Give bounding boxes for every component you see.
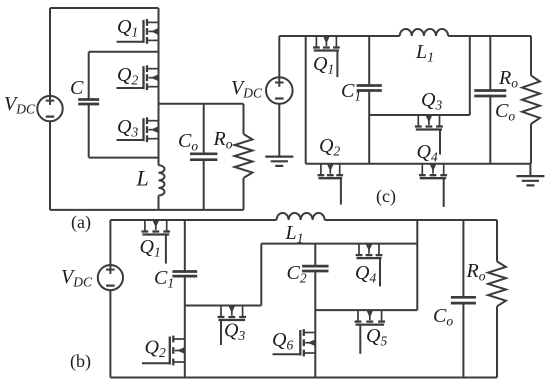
- wire: (a) top rail from Vdc to switch rail: [50, 7, 159, 9]
- label (b): [70, 351, 91, 372]
- label Q3 (a): [117, 116, 138, 140]
- wire: (c) C1 bottom lead: [368, 91, 370, 164]
- wire: (c) Ro bottom lead: [530, 124, 532, 164]
- wire: (b) bottom rail: [110, 377, 497, 379]
- wire: (b) Q4 branch: [261, 243, 417, 245]
- label Ro (b): [466, 260, 486, 284]
- wire: (c) top rail left segment: [279, 35, 399, 37]
- capacitor C1 (c): [357, 86, 382, 91]
- label Co (b): [433, 305, 453, 329]
- wire: gate lead Q1 (b): [165, 235, 167, 264]
- wire: (a) Co bottom lead: [203, 160, 205, 210]
- label C (a): [70, 77, 84, 99]
- inductor L1 (c): [400, 29, 448, 36]
- wire: (b) Co bottom lead: [462, 303, 464, 377]
- transistor Q2 (c): [318, 164, 344, 179]
- wire: (a) C bottom tap to Q3 source node: [89, 104, 159, 158]
- wire: (b) riser Q3 right to Q4 branch: [260, 244, 262, 306]
- transistor Q4 (c): [419, 164, 447, 179]
- wire: gate lead Q5 (b): [359, 325, 361, 354]
- label Ro (a): [213, 128, 233, 152]
- label Q3 (c): [421, 89, 442, 113]
- label (c): [376, 186, 396, 207]
- source VDC (c): [266, 77, 293, 104]
- capacitor C (a): [78, 100, 99, 105]
- label Co (a): [178, 130, 198, 154]
- wire: (a) Ro top lead: [243, 104, 245, 134]
- wire: gate lead Q4 (c): [443, 178, 445, 207]
- wire: (c) Q3 branch: [369, 114, 470, 116]
- capacitor C1 (b): [172, 272, 197, 277]
- svg-text:(c): (c): [376, 186, 396, 207]
- wire: gate lead Q1 (c): [336, 51, 338, 78]
- transistor Q1 (c): [313, 36, 340, 51]
- label VDC (a): [4, 93, 36, 117]
- wire: (a) rail below L: [158, 196, 160, 210]
- wire: (c) bottom rail: [306, 163, 531, 165]
- label L (a): [136, 166, 149, 191]
- wire: (c) Co bottom lead: [489, 96, 491, 164]
- transistor Q3 (a): [144, 117, 159, 142]
- wire: (a) Ro bottom lead: [243, 178, 245, 210]
- wire: (c) drop to Q2: [305, 36, 307, 164]
- wire: (b) top rail right segment: [325, 219, 497, 221]
- svg-text:(b): (b): [70, 351, 91, 372]
- transistor Q1 (b): [142, 220, 171, 235]
- label Q4 (b): [355, 262, 376, 286]
- transistor Q3 (c): [415, 115, 443, 130]
- svg-text:C: C: [70, 77, 84, 99]
- inductor L1 (b): [277, 213, 325, 220]
- wire: (b) Ro top lead: [496, 220, 498, 261]
- transistor Q3 (b): [218, 306, 246, 321]
- wire: gate lead Q2 (a): [117, 87, 144, 89]
- wire: gate lead Q4 (b): [379, 258, 381, 286]
- source VDC (b): [98, 265, 123, 290]
- source VDC (a): [37, 96, 62, 121]
- wire: (a) Co top lead: [203, 104, 205, 154]
- wire: (b) Vdc bottom lead: [109, 290, 111, 377]
- label Q2 (a): [117, 64, 138, 88]
- svg-text:L: L: [136, 166, 149, 191]
- wire: (b) C1 bottom rail to Q2 and bottom: [184, 276, 186, 377]
- capacitor Co (c): [474, 91, 506, 97]
- label Q1 (c): [313, 53, 334, 77]
- label Q6 (b): [272, 329, 293, 353]
- label Q1 (a): [117, 16, 138, 40]
- label Q4 (c): [417, 141, 438, 165]
- wire: (b) Vdc top riser: [109, 220, 111, 265]
- wire: (b) top rail left segment: [110, 219, 276, 221]
- wire: (c) top rail right segment: [448, 35, 531, 37]
- wire: (c) Co top lead: [489, 36, 491, 91]
- label VDC (b): [61, 266, 93, 290]
- wire: (b) C2 top lead: [314, 244, 316, 267]
- wire: (c) C1 top lead: [368, 36, 370, 86]
- label L1 (c): [415, 41, 434, 66]
- resistor Ro (c): [522, 75, 540, 124]
- wire: (b) Q5 branch: [315, 309, 417, 311]
- label Q5 (b): [366, 325, 387, 349]
- transistor Q2 (a): [144, 65, 159, 90]
- wire: gate lead Q3 (b): [220, 320, 222, 345]
- resistor Ro (b): [488, 261, 506, 306]
- wire: (c) Vdc bottom lead: [278, 104, 280, 157]
- ground (c) left: [265, 157, 293, 166]
- svg-text:(a): (a): [71, 212, 91, 233]
- label (a): [71, 212, 91, 233]
- wire: (b) C1 top lead: [184, 220, 186, 272]
- wire: gate lead Q2 (c): [340, 178, 342, 204]
- wire: (b) riser to top rail: [416, 220, 418, 310]
- wire: gate lead Q3 (a): [117, 139, 144, 141]
- ground (c) right: [516, 176, 544, 185]
- wire: gate lead Q2 (b): [142, 362, 170, 364]
- wire: (a) C top tap from Q1 source node: [89, 52, 159, 100]
- transistor Q6 (b): [300, 329, 315, 356]
- label L1 (b): [285, 222, 304, 247]
- wire: (a) main switch rail: [158, 8, 160, 165]
- capacitor Co (a): [190, 154, 217, 160]
- wire: gate lead Q1 (a): [117, 41, 144, 43]
- wire: (a) bottom rail: [50, 209, 244, 211]
- capacitor C2 (b): [302, 266, 328, 271]
- wire: (a) left wire Vdc bottom: [49, 121, 51, 210]
- wire: (c) ground stub: [529, 164, 531, 176]
- wire: gate lead Q6 (b): [273, 353, 301, 355]
- label C1 (c): [341, 80, 361, 104]
- label VDC (c): [231, 77, 263, 101]
- wire: (b) C2 bottom rail through Q6: [314, 271, 316, 378]
- resistor Ro (a): [235, 134, 253, 178]
- capacitor Co (b): [451, 297, 476, 303]
- label C2 (b): [287, 262, 307, 286]
- wire: (c) Vdc top lead: [278, 36, 280, 77]
- wire: (b) Q3 branch: [185, 305, 261, 307]
- wire: (c) Ro top lead: [530, 36, 532, 75]
- wire: (a) left wire Vdc top: [49, 8, 51, 96]
- label Q2 (c): [319, 135, 340, 159]
- label Q2 (b): [145, 337, 166, 361]
- inductor L (a): [159, 165, 165, 195]
- label C1 (b): [154, 267, 174, 291]
- label Ro (c): [498, 67, 518, 91]
- wire: (a) output top tap: [159, 103, 244, 105]
- wire: (b) Co top lead: [462, 220, 464, 297]
- wire: (b) Ro bottom lead: [496, 306, 498, 377]
- transistor Q4 (b): [356, 244, 383, 259]
- wire: (c) riser Q3 right to top rail: [469, 36, 471, 115]
- transistor Q5 (b): [355, 310, 385, 325]
- wire: gate lead Q3 (c): [439, 130, 441, 155]
- label Q1 (b): [140, 236, 161, 260]
- label Q3 (b): [224, 320, 245, 344]
- label Co (c): [495, 100, 515, 124]
- transistor Q2 (b): [170, 336, 185, 366]
- transistor Q1 (a): [144, 19, 159, 44]
